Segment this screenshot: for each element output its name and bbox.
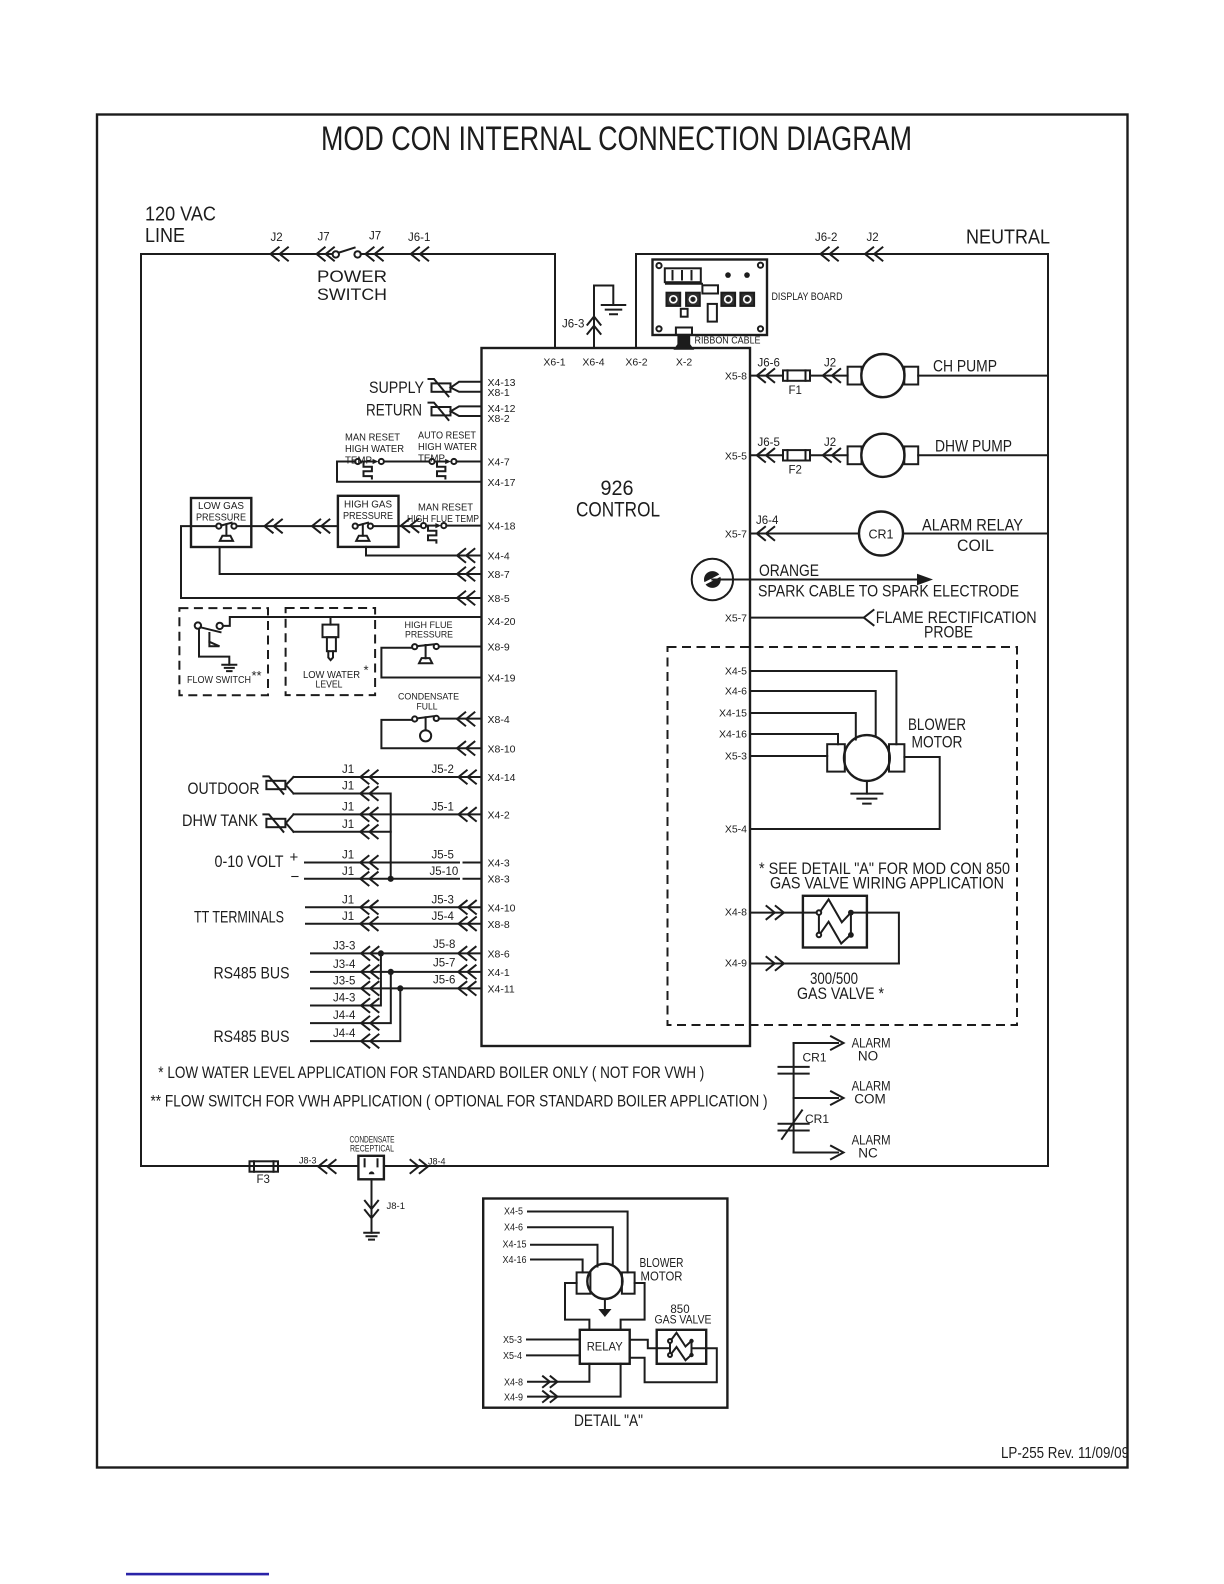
svg-text:J6-4: J6-4 [756,515,779,527]
connector J2 chevron on neutral [865,247,882,260]
svg-text:X-2: X-2 [676,357,693,369]
condensate receptacle [358,1156,384,1180]
svg-text:X6-1: X6-1 [543,357,565,369]
svg-text:J4-4: J4-4 [333,1010,356,1022]
svg-text:J2: J2 [824,358,836,370]
svg-text:CH PUMP: CH PUMP [933,357,997,376]
svg-text:LP-255 Rev. 11/09/09: LP-255 Rev. 11/09/09 [1001,1445,1129,1462]
svg-text:X5-4: X5-4 [725,824,747,836]
wire X4-15 detail [531,1245,598,1267]
svg-text:−: − [291,869,300,886]
display board pushbuttons [667,293,681,306]
fuse F2 [783,450,810,460]
svg-text:X4-8: X4-8 [725,907,747,919]
wire low gas box bottom to X8-7 [220,547,482,574]
wire earth ground branch J6-3 to X6-4 [594,286,613,349]
svg-text:PRESSURE: PRESSURE [343,510,393,522]
svg-text:NO: NO [858,1049,878,1064]
svg-text:X6-4: X6-4 [582,357,604,369]
svg-text:FLOW SWITCH: FLOW SWITCH [187,674,251,686]
svg-text:X4-8: X4-8 [504,1378,523,1389]
wire relay to gas valve return (detail) [630,1348,717,1382]
svg-text:J5-7: J5-7 [433,958,455,970]
svg-text:MAN RESET: MAN RESET [418,502,474,514]
wire J4-4 branch [311,972,391,1023]
svg-text:MAN RESET: MAN RESET [345,432,401,444]
svg-text:X6-2: X6-2 [625,357,647,369]
svg-text:*: * [364,663,369,678]
svg-text:X4-1: X4-1 [488,967,510,979]
wire high gas to man reset flue switch [373,525,421,527]
svg-text:F3: F3 [257,1174,270,1186]
wire F1 to J2 [810,375,848,377]
svg-text:X4-6: X4-6 [725,686,747,698]
svg-text:X8-10: X8-10 [488,743,516,755]
svg-text:SWITCH: SWITCH [317,285,387,304]
svg-text:J5-8: J5-8 [433,939,455,951]
wire X4-5 to blower [750,671,896,744]
wire hot line from switch to X6-1 drop [361,254,555,348]
connector J8-3 chevron [318,1160,335,1173]
gas valve 850 internal symbol (detail) [668,1339,672,1343]
svg-text:LEVEL: LEVEL [316,679,343,691]
svg-text:F1: F1 [789,385,802,397]
svg-text:J5-5: J5-5 [432,850,454,862]
svg-text:J3-3: J3-3 [333,941,355,953]
wire 120VAC hot top run to power switch [141,253,332,255]
relay coil CR1 [859,512,903,556]
junction dot 0-10V common [388,876,394,882]
svg-text:X4-5: X4-5 [725,666,747,678]
svg-text:HIGH GAS: HIGH GAS [344,499,392,511]
fuse F3 [250,1161,279,1171]
wire high flue switch to X4-19 [381,648,481,678]
svg-text:CR1: CR1 [868,528,893,542]
display board vertical rect component [708,304,717,322]
display board 7-segment window [665,268,701,282]
svg-text:* LOW WATER LEVEL APPLICATION: * LOW WATER LEVEL APPLICATION FOR STANDA… [158,1063,704,1082]
connector J6-6 chevron [757,369,774,382]
wire J4-3 branch [311,953,381,1005]
wire neutral top run [636,253,1048,255]
svg-text:J1: J1 [342,802,354,814]
connector chevron before flue switch [401,519,418,532]
wire alarm COM arrow [794,1091,844,1104]
svg-text:J1: J1 [342,819,354,831]
wire condensate switch to X8-4 [439,718,482,720]
svg-text:** FLOW SWITCH FOR VWH APPLIC: ** FLOW SWITCH FOR VWH APPLICATION ( OPT… [151,1092,768,1111]
wire J3-4 to X4-1 [311,971,482,973]
wire X5-4 to relay (detail) [527,1354,580,1356]
return temp sensor [432,407,451,415]
wire dhw sensor fork [286,814,294,831]
svg-text:SUPPLY: SUPPLY [369,378,424,397]
svg-text:LINE: LINE [145,225,185,247]
connector chevron X4-9 (right) [767,957,784,970]
wire X4-6 to blower [750,691,876,736]
wire neutral drop to X6-2 [635,254,637,348]
fuse F1 [783,370,810,380]
svg-text:BLOWER: BLOWER [908,715,966,734]
detail A box [483,1199,727,1408]
wire alarm NC arrow [794,1146,844,1159]
wire J4-4 lower branch [311,988,400,1041]
ground symbol near display board [602,305,626,314]
dashed boundary box blower/gas-valve section [668,647,1018,1025]
blue underline mark [126,1573,269,1576]
svg-text:+: + [290,849,299,866]
ground symbol flow switch [222,665,236,671]
svg-text:MOTOR: MOTOR [641,1269,683,1284]
wire neutral right bus vertical [1047,254,1049,1166]
svg-text:J1: J1 [342,850,354,862]
svg-text:J1: J1 [342,866,354,878]
wire outdoor bottom to common [294,794,391,815]
svg-text:J8-1: J8-1 [387,1201,405,1212]
ground symbol blower motor [851,794,882,804]
wire X4-15 to blower [750,713,856,740]
svg-text:DHW PUMP: DHW PUMP [935,437,1012,456]
low water level probe [330,617,332,625]
svg-text:926: 926 [601,476,634,500]
display board outline [653,260,768,336]
connector J6-4 chevron [757,527,774,540]
CH pump motor [848,367,862,385]
svg-text:J6-2: J6-2 [815,232,837,244]
ground symbol receptacle [364,1233,379,1240]
connector J6-3 chevron (up) [587,317,600,334]
junction dot J3-3 [378,950,384,956]
svg-text:RETURN: RETURN [366,401,422,420]
gas valve internal symbol [817,910,822,915]
wire F2 to J2 [810,454,848,456]
svg-text:X4-20: X4-20 [488,616,516,628]
svg-text:X4-9: X4-9 [504,1393,523,1404]
svg-text:X8-6: X8-6 [488,949,510,961]
svg-text:J8-3: J8-3 [299,1156,317,1166]
wire DHW pump to neutral bus [918,454,1048,456]
gas valve 850 box (detail) [657,1330,707,1364]
wire 0-10V plus to X4-3 [305,862,482,864]
svg-text:NC: NC [858,1146,878,1161]
wire CH pump to neutral bus [918,375,1048,377]
svg-text:CR1: CR1 [803,1051,827,1065]
spark electrode symbol [692,559,733,600]
auto reset high water switch [429,459,434,464]
wire high flue switch to X8-9 [439,646,482,648]
connector J8-4 chevron [411,1160,428,1173]
svg-text:X4-16: X4-16 [719,729,747,741]
display board small square component [681,309,688,317]
svg-text:120 VAC: 120 VAC [145,204,216,226]
wire flue switch to X4-18 [446,525,481,527]
svg-text:J1: J1 [342,911,354,923]
wire outdoor sensor fork [286,777,294,794]
svg-text:DETAIL "A": DETAIL "A" [574,1412,643,1430]
svg-text:X4-10: X4-10 [488,903,516,915]
connector J6-1 chevron [411,247,428,260]
svg-text:SPARK CABLE TO SPARK ELECTRODE: SPARK CABLE TO SPARK ELECTRODE [758,582,1019,601]
connector chevron X8-5 [457,591,474,604]
svg-text:X8-9: X8-9 [488,642,510,654]
svg-text:X8-1: X8-1 [488,387,510,399]
wire X4-16 detail [531,1260,583,1273]
wire high gas box bottom to X4-4 [366,547,482,556]
svg-text:HIGH WATER: HIGH WATER [418,441,477,453]
wire flame rectification probe [750,617,864,619]
wire J3-5 to X4-11 [311,987,482,989]
wire 120VAC hot: left bus vertical [140,254,142,1166]
low water level dashed box [286,608,376,695]
wire low gas to high gas [237,525,338,527]
svg-text:**: ** [252,668,262,683]
wire X4-5 detail [528,1212,628,1273]
svg-text:X4-19: X4-19 [488,673,516,685]
connector J2 chevron on hot line [271,247,288,260]
svg-text:J2: J2 [824,437,836,449]
wire X4-6 detail [528,1227,613,1264]
svg-text:J7: J7 [318,232,330,244]
blower motor [827,744,845,771]
svg-text:FULL: FULL [417,701,438,712]
dhw tank sensor [266,819,285,827]
svg-text:J1: J1 [342,781,354,793]
display board corner screws [656,263,661,268]
svg-text:X4-9: X4-9 [725,958,747,970]
wire return sensor to X4-12/X8-2 [451,406,482,416]
wire bottom rail [141,1165,1048,1167]
svg-text:CR1: CR1 [805,1112,829,1126]
wire X5-3 to relay (detail) [527,1339,580,1341]
wire alarm NO arrow [794,1036,844,1049]
wire condensate switch to X8-10 [381,720,481,748]
svg-text:X4-15: X4-15 [719,708,747,720]
wire low gas left side to X8-5 [181,526,482,598]
man reset high flue temp switch [421,523,426,528]
svg-text:X5-4: X5-4 [503,1351,522,1362]
svg-text:J1: J1 [342,895,354,907]
svg-text:J6-5: J6-5 [758,437,780,449]
svg-text:X8-2: X8-2 [488,413,510,425]
svg-text:J5-4: J5-4 [432,911,455,923]
svg-text:X4-2: X4-2 [488,810,510,822]
svg-text:X5-3: X5-3 [503,1335,522,1346]
connector chevron X8-4 [457,712,474,725]
svg-text:PRESSURE: PRESSURE [196,512,246,524]
wire X4-16 to blower [750,734,838,744]
connector chevron X4-8 (right) [767,906,784,919]
svg-text:J3-5: J3-5 [333,976,355,988]
ribbon cable connector [676,328,692,335]
svg-text:ALARM RELAY: ALARM RELAY [922,516,1023,535]
wire TT top to X4-10 [306,906,482,908]
connector J7 chevron left of switch [317,247,334,260]
svg-text:PRESSURE: PRESSURE [405,630,453,641]
wire relay to gas valve (detail) [630,1340,657,1349]
svg-text:RELAY: RELAY [587,1342,623,1354]
connector J8-1 chevron (down) [365,1201,378,1218]
connector J7 chevron right of switch [365,247,382,260]
svg-text:HIGH WATER: HIGH WATER [345,443,404,455]
wire blower motor ground stem [866,781,868,794]
wire receptacle ground drop [371,1179,373,1233]
wire dhw bottom to common [294,831,391,833]
wire outdoor top to X4-14 [294,776,482,778]
926 control box outline [482,348,751,1046]
flow switch [195,622,201,628]
svg-text:MOD CON INTERNAL CONNECTION DI: MOD CON INTERNAL CONNECTION DIAGRAM [321,120,912,158]
svg-text:PROBE: PROBE [924,623,973,642]
wire X4-9 to relay (detail) [528,1364,621,1397]
svg-text:X5-7: X5-7 [725,613,747,625]
wire J3-3 to X8-6 [311,952,482,954]
junction dot J3-5 [397,985,403,991]
wire X5-7 to CR1 coil [750,533,859,535]
svg-text:F2: F2 [789,465,802,477]
svg-text:TT TERMINALS: TT TERMINALS [194,908,284,927]
svg-text:X8-7: X8-7 [488,569,510,581]
svg-text:X8-5: X8-5 [488,593,510,605]
connector J2 chevron (CH pump) [823,369,840,382]
wire TT bottom to X8-8 [306,923,482,925]
wire X5-8 to F1 [750,375,783,377]
DHW pump motor [848,446,862,464]
svg-text:J5-3: J5-3 [432,895,454,907]
svg-text:X4-7: X4-7 [488,457,510,469]
man reset high water switch [355,459,360,464]
wire supply sensor to X4-13/X8-1 [451,382,482,392]
wire common vertical to 0-10V minus [390,814,392,878]
wire motor left to relay (detail) [565,1283,589,1330]
low gas pressure switch box [191,498,251,547]
wire flow switch to ground [199,629,229,665]
svg-text:DISPLAY BOARD: DISPLAY BOARD [772,291,843,303]
wire X4-7 switch loop [457,461,482,463]
display board small rect component [702,285,718,293]
svg-text:X4-17: X4-17 [488,477,516,489]
svg-text:J4-3: J4-3 [333,993,355,1005]
svg-text:RECEPTICAL: RECEPTICAL [350,1144,394,1154]
svg-text:OUTDOOR: OUTDOOR [188,779,260,798]
junction dot J3-4 [388,969,394,975]
svg-text:J5-2: J5-2 [432,764,454,776]
wire flow switch to X4-20 [223,617,482,626]
high gas pressure switch box [338,496,399,547]
wire CR1 to neutral bus [903,533,1048,535]
svg-text:J1: J1 [342,764,354,776]
svg-text:MOTOR: MOTOR [912,733,963,752]
svg-text:POWER: POWER [317,267,387,286]
svg-text:X8-3: X8-3 [488,874,510,886]
connector J2 chevron (DHW pump) [823,449,840,462]
svg-text:LOW GAS: LOW GAS [198,500,244,512]
wire X4-8 to gas valve [750,912,817,914]
svg-text:COIL: COIL [957,536,994,555]
wire alarm contact vertical [793,1043,795,1153]
svg-text:J4-4: J4-4 [333,1028,356,1040]
wire X4-9 row [750,963,899,965]
svg-text:NEUTRAL: NEUTRAL [966,227,1050,249]
svg-text:J6-1: J6-1 [408,232,430,244]
connector chevron X8-10 [457,742,474,755]
svg-text:X4-14: X4-14 [488,772,516,784]
svg-text:X4-11: X4-11 [488,984,515,996]
svg-text:J8-4: J8-4 [428,1157,446,1167]
svg-text:RS485 BUS: RS485 BUS [214,964,290,983]
svg-text:RS485 BUS: RS485 BUS [214,1027,290,1046]
connector J6-2 chevron on neutral [821,247,838,260]
high flue pressure switch [412,644,417,649]
relay box (detail) [580,1330,630,1364]
wire motor down arrow (detail) [604,1299,606,1310]
svg-text:X8-4: X8-4 [488,714,510,726]
display board LED indicators [725,272,731,278]
svg-text:DHW TANK: DHW TANK [182,811,259,830]
svg-text:X4-3: X4-3 [488,858,510,870]
svg-text:X4-4: X4-4 [488,551,510,563]
svg-text:AUTO RESET: AUTO RESET [418,430,477,442]
svg-text:X5-7: X5-7 [725,529,747,541]
svg-text:GAS VALVE *: GAS VALVE * [797,984,884,1003]
svg-text:X4-15: X4-15 [503,1240,527,1251]
svg-text:RIBBON CABLE: RIBBON CABLE [695,336,761,347]
svg-text:GAS VALVE: GAS VALVE [655,1315,712,1327]
low gas pressure switch [216,524,221,529]
svg-text:X4-16: X4-16 [503,1255,527,1266]
wire X5-5 to F2 [750,454,783,456]
svg-text:X4-6: X4-6 [504,1223,523,1234]
svg-text:J7: J7 [369,231,381,243]
condensate full switch [412,716,417,721]
relay contact CR1 (NC) [779,1124,809,1131]
svg-text:X5-3: X5-3 [725,751,747,763]
outdoor sensor [266,781,285,789]
connector chevron pair on X4-18 chain [265,520,282,533]
svg-text:J5-10: J5-10 [430,866,459,878]
wire X4-17 return loop [337,462,482,482]
svg-text:J6-6: J6-6 [758,358,780,370]
connector chevron X8-7 [457,567,474,580]
svg-text:GAS VALVE WIRING APPLICATION: GAS VALVE WIRING APPLICATION [770,874,1004,893]
svg-text:J6-3: J6-3 [562,319,584,331]
page border frame [97,115,1128,1468]
wire spark cable [712,579,917,581]
wire 0-10V minus to X8-3 [305,878,482,880]
svg-text:X4-5: X4-5 [504,1207,523,1218]
connector J6-5 chevron [757,449,774,462]
svg-text:X8-8: X8-8 [488,919,510,931]
svg-text:J5-1: J5-1 [432,802,454,814]
wire X4-8 to relay (detail) [528,1364,589,1382]
svg-text:ORANGE: ORANGE [759,561,819,580]
gas valve 300/500 box [803,896,867,948]
wire gas valve to X4-9 [854,913,899,964]
svg-text:J2: J2 [867,232,879,244]
high gas pressure switch [353,524,358,529]
connector chevron X4-4 [457,549,474,562]
svg-text:0-10 VOLT: 0-10 VOLT [215,852,284,871]
svg-text:X5-5: X5-5 [725,450,747,462]
wire X5-4 to blower [750,757,940,829]
wire between switches [384,461,429,463]
wire motor right to relay (detail) [621,1283,645,1330]
svg-text:X4-18: X4-18 [488,521,516,533]
svg-text:J5-6: J5-6 [433,975,455,987]
power switch S1 [333,251,339,257]
svg-text:J3-4: J3-4 [333,959,356,971]
flow switch dashed box [179,608,268,695]
wire X5-3 to blower [750,755,827,757]
